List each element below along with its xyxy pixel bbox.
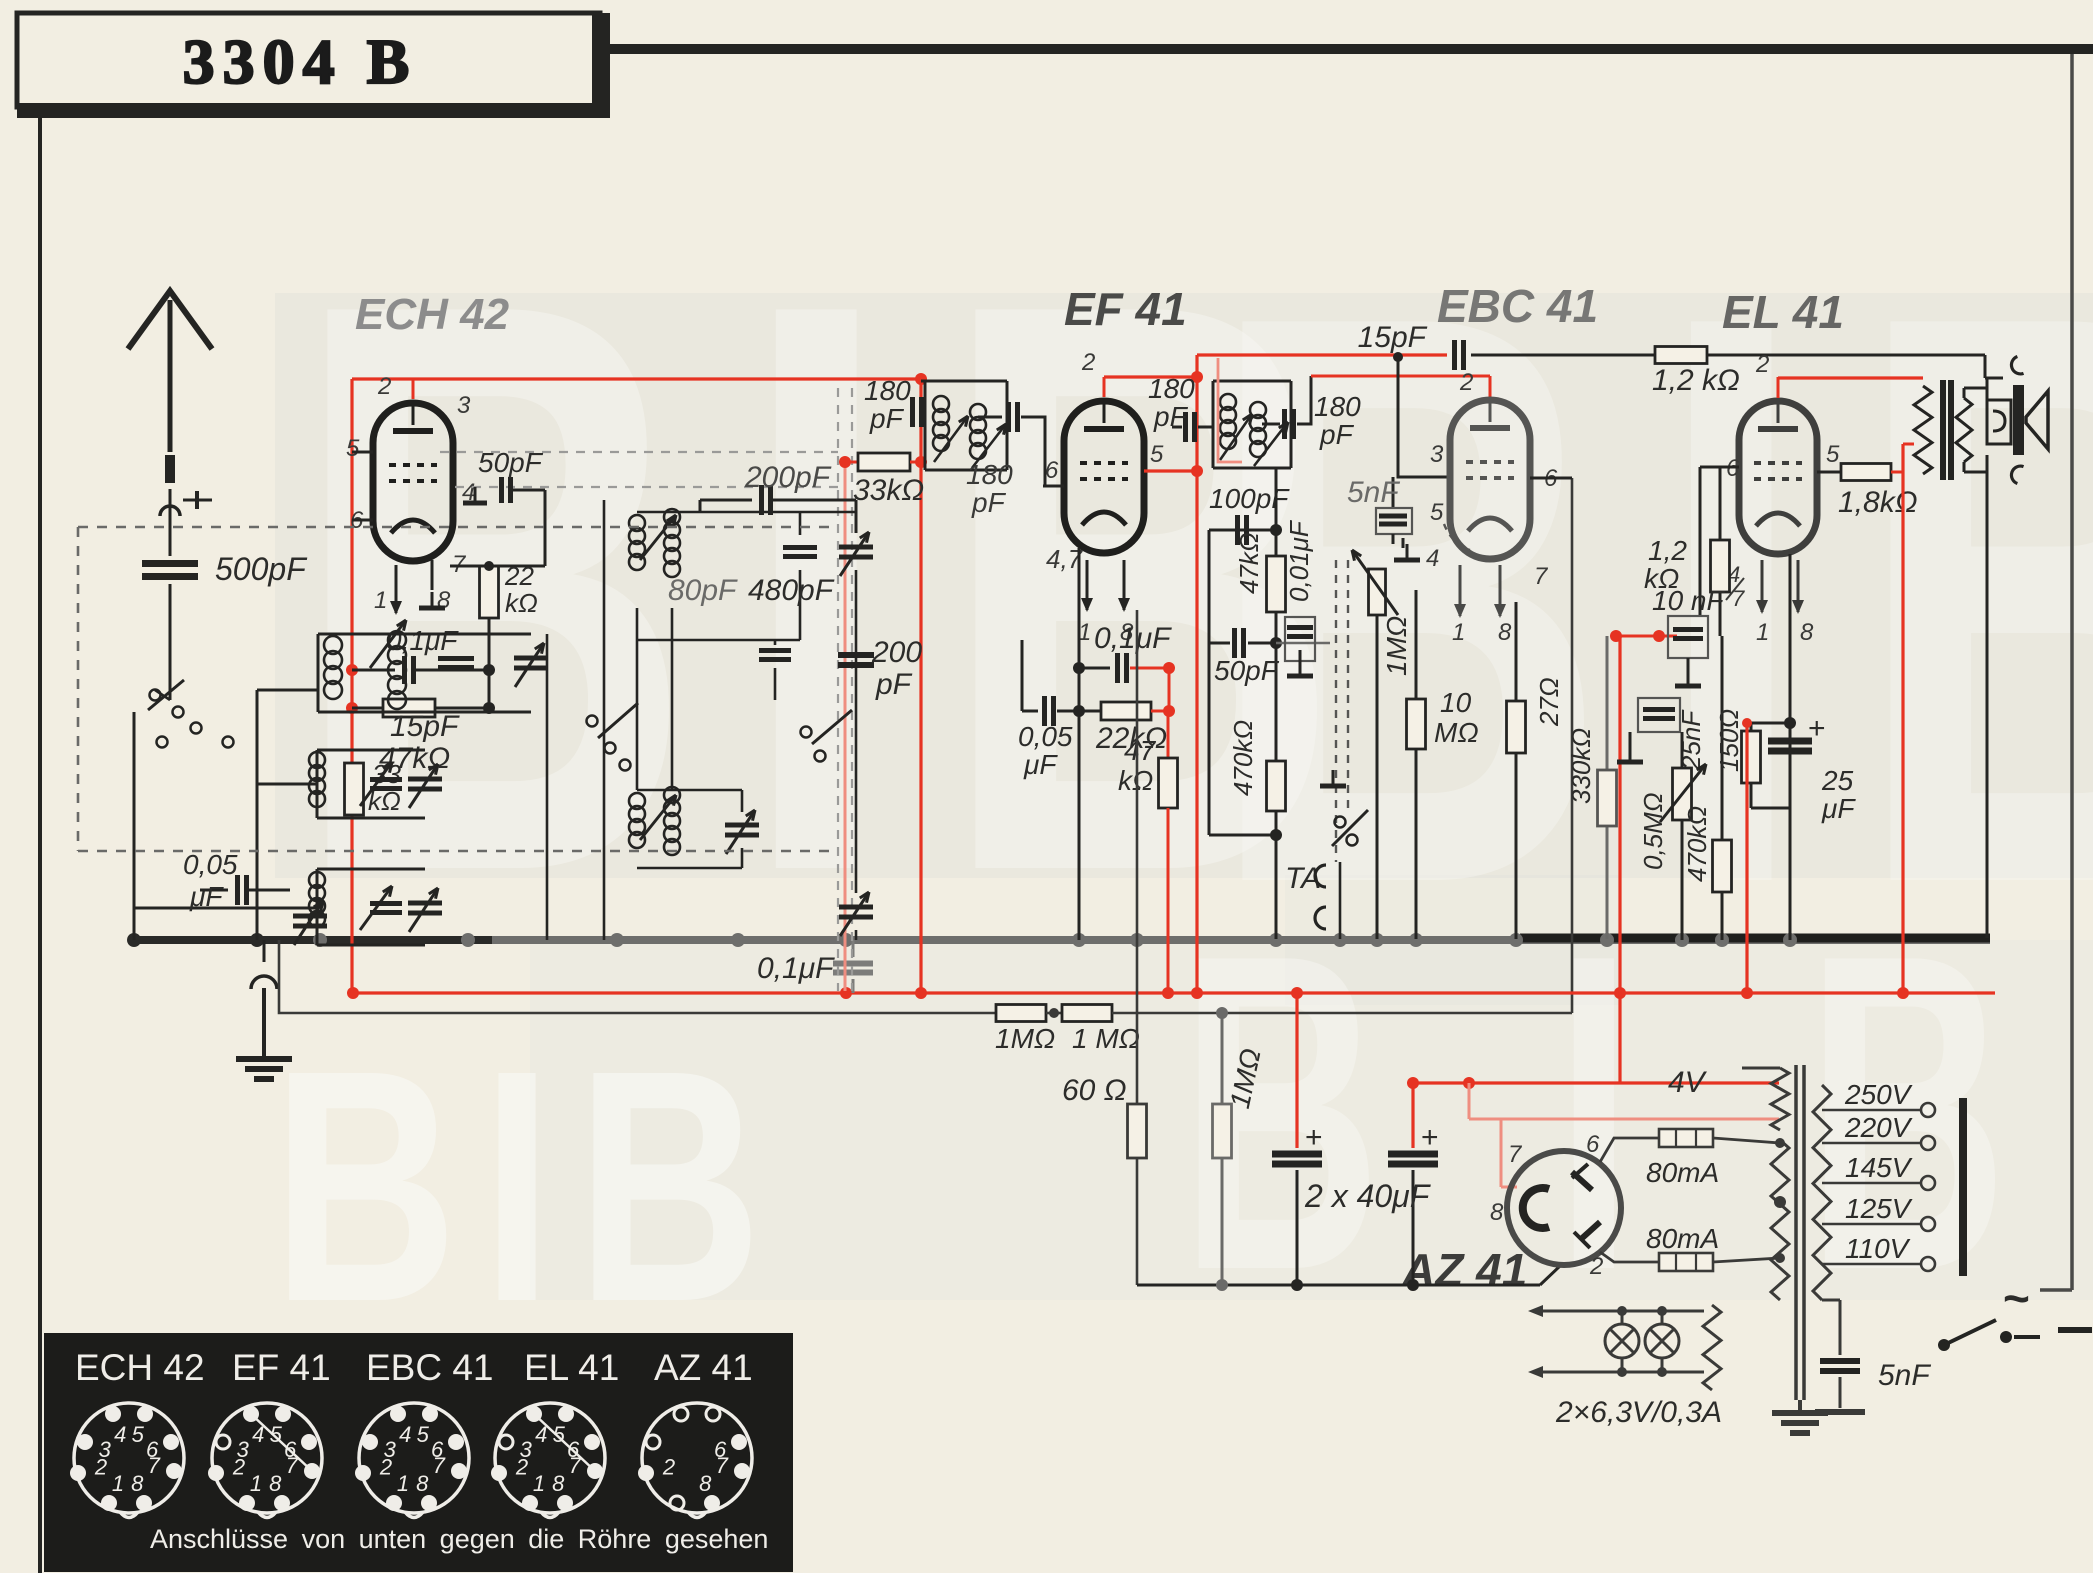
- svg-text:5: 5: [132, 1422, 145, 1447]
- svg-text:3: 3: [237, 1437, 250, 1462]
- svg-text:8: 8: [1490, 1199, 1504, 1226]
- svg-text:80mA: 80mA: [1646, 1157, 1719, 1188]
- svg-text:EF 41: EF 41: [232, 1347, 331, 1388]
- svg-text:1MΩ: 1MΩ: [1381, 616, 1412, 676]
- svg-text:4: 4: [114, 1422, 126, 1447]
- svg-text:3: 3: [457, 392, 471, 419]
- svg-text:22: 22: [504, 561, 534, 591]
- svg-text:1: 1: [533, 1471, 545, 1496]
- svg-text:50pF: 50pF: [1214, 655, 1280, 686]
- svg-text:180: 180: [1314, 391, 1361, 422]
- svg-text:0,01μF: 0,01μF: [1284, 519, 1314, 602]
- svg-text:2×6,3V/0,3A: 2×6,3V/0,3A: [1555, 1396, 1722, 1429]
- svg-text:7: 7: [433, 1453, 446, 1478]
- svg-text:1: 1: [374, 587, 387, 614]
- svg-text:6: 6: [1045, 457, 1059, 484]
- svg-text:5nF: 5nF: [1878, 1359, 1931, 1392]
- svg-text:180: 180: [864, 375, 911, 406]
- svg-text:0,05: 0,05: [1018, 721, 1073, 752]
- svg-text:Anschlüsse von unten gegen die: Anschlüsse von unten gegen die Röhre ges…: [150, 1524, 768, 1554]
- svg-text:μF: μF: [189, 881, 224, 912]
- svg-text:4: 4: [1426, 545, 1439, 572]
- svg-text:7: 7: [1534, 563, 1549, 590]
- svg-text:ECH 42: ECH 42: [355, 290, 510, 339]
- svg-text:EBC 41: EBC 41: [1437, 280, 1598, 332]
- svg-text:+: +: [1421, 1121, 1439, 1154]
- svg-text:180: 180: [966, 459, 1013, 490]
- svg-text:kΩ: kΩ: [1118, 765, 1153, 796]
- svg-text:MΩ: MΩ: [1434, 717, 1479, 748]
- svg-text:33kΩ: 33kΩ: [853, 474, 924, 507]
- svg-text:2: 2: [662, 1454, 675, 1479]
- svg-text:10: 10: [1440, 687, 1472, 718]
- svg-text:60 Ω: 60 Ω: [1062, 1074, 1127, 1107]
- svg-text:7: 7: [716, 1453, 729, 1478]
- svg-text:15pF: 15pF: [390, 710, 460, 743]
- svg-text:200: 200: [871, 636, 922, 669]
- svg-text:2: 2: [1589, 1253, 1603, 1280]
- svg-text:4V: 4V: [1668, 1066, 1708, 1099]
- svg-text:180: 180: [1148, 373, 1195, 404]
- svg-text:1,2: 1,2: [1648, 535, 1687, 566]
- svg-text:4: 4: [399, 1422, 411, 1447]
- svg-text:110V: 110V: [1845, 1233, 1911, 1264]
- svg-text:5: 5: [1430, 499, 1444, 526]
- svg-text:7: 7: [148, 1453, 161, 1478]
- svg-text:150Ω: 150Ω: [1714, 709, 1744, 772]
- svg-text:8: 8: [269, 1471, 282, 1496]
- svg-text:1 MΩ: 1 MΩ: [1072, 1023, 1140, 1054]
- svg-text:5: 5: [346, 435, 360, 462]
- svg-text:3304 B: 3304 B: [183, 26, 418, 97]
- svg-text:1: 1: [1452, 619, 1465, 646]
- svg-text:AZ 41: AZ 41: [1401, 1244, 1527, 1296]
- svg-text:μF: μF: [1821, 793, 1856, 824]
- svg-text:EL 41: EL 41: [1722, 286, 1844, 338]
- svg-text:1: 1: [250, 1471, 262, 1496]
- svg-text:0,5MΩ: 0,5MΩ: [1638, 792, 1668, 870]
- svg-text:8: 8: [1498, 619, 1512, 646]
- svg-text:8: 8: [1800, 619, 1814, 646]
- svg-text:2 x 40μF: 2 x 40μF: [1304, 1178, 1432, 1214]
- svg-text:50pF: 50pF: [478, 447, 544, 478]
- svg-text:1: 1: [1756, 619, 1769, 646]
- svg-text:330kΩ: 330kΩ: [1566, 728, 1596, 804]
- svg-text:250V: 250V: [1844, 1079, 1913, 1110]
- svg-text:EBC 41: EBC 41: [366, 1347, 494, 1388]
- svg-text:80pF: 80pF: [668, 574, 738, 607]
- svg-text:1: 1: [112, 1471, 124, 1496]
- svg-text:125V: 125V: [1845, 1193, 1913, 1224]
- svg-text:5: 5: [1150, 441, 1164, 468]
- svg-text:8: 8: [699, 1471, 712, 1496]
- svg-text:3: 3: [99, 1437, 112, 1462]
- svg-text:ECH 42: ECH 42: [75, 1347, 205, 1388]
- svg-text:2: 2: [1459, 369, 1473, 396]
- svg-text:1MΩ: 1MΩ: [995, 1023, 1055, 1054]
- svg-text:EF 41: EF 41: [1064, 283, 1187, 335]
- svg-text:80mA: 80mA: [1646, 1223, 1719, 1254]
- svg-text:15pF: 15pF: [1358, 321, 1428, 354]
- svg-text:~: ~: [2003, 1272, 2030, 1324]
- svg-text:145V: 145V: [1845, 1152, 1913, 1183]
- svg-text:1: 1: [397, 1471, 409, 1496]
- svg-text:5: 5: [417, 1422, 430, 1447]
- svg-text:BIB: BIB: [272, 1001, 785, 1370]
- svg-text:pF: pF: [869, 403, 905, 434]
- svg-text:220V: 220V: [1844, 1112, 1913, 1143]
- svg-text:+: +: [1305, 1121, 1323, 1154]
- svg-text:100pF: 100pF: [1209, 483, 1290, 514]
- svg-text:47: 47: [1124, 735, 1157, 766]
- svg-text:5: 5: [1826, 441, 1840, 468]
- svg-text:pF: pF: [1153, 401, 1189, 432]
- svg-text:10 nF: 10 nF: [1652, 585, 1725, 616]
- svg-text:470kΩ: 470kΩ: [1682, 806, 1712, 882]
- svg-text:3: 3: [520, 1437, 533, 1462]
- svg-text:470kΩ: 470kΩ: [1228, 720, 1258, 796]
- svg-text:5nF: 5nF: [1347, 476, 1400, 509]
- svg-text:pF: pF: [875, 668, 913, 701]
- svg-text:2: 2: [377, 373, 391, 400]
- svg-text:6: 6: [1586, 1131, 1600, 1158]
- svg-text:8: 8: [416, 1471, 429, 1496]
- svg-text:7: 7: [1508, 1141, 1523, 1168]
- svg-text:EL 41: EL 41: [524, 1347, 619, 1388]
- svg-text:pF: pF: [1319, 419, 1355, 450]
- svg-text:μF: μF: [1023, 749, 1058, 780]
- svg-text:25: 25: [1821, 765, 1854, 796]
- svg-text:0,1μF: 0,1μF: [1094, 622, 1172, 655]
- svg-text:0,1μF: 0,1μF: [757, 952, 835, 985]
- svg-text:27Ω: 27Ω: [1534, 677, 1564, 727]
- svg-text:kΩ: kΩ: [505, 588, 538, 618]
- svg-text:200pF: 200pF: [744, 461, 832, 494]
- svg-text:3: 3: [1430, 441, 1444, 468]
- svg-text:8: 8: [131, 1471, 144, 1496]
- svg-text:500pF: 500pF: [215, 551, 308, 587]
- svg-text:2: 2: [1755, 351, 1769, 378]
- svg-text:2: 2: [1081, 349, 1095, 376]
- svg-text:AZ 41: AZ 41: [654, 1347, 753, 1388]
- svg-text:+: +: [1808, 712, 1826, 745]
- svg-text:3: 3: [384, 1437, 397, 1462]
- svg-text:1,2 kΩ: 1,2 kΩ: [1652, 364, 1740, 397]
- svg-text:0,05: 0,05: [183, 849, 238, 880]
- svg-text:8: 8: [552, 1471, 565, 1496]
- svg-text:1,8kΩ: 1,8kΩ: [1838, 486, 1918, 519]
- svg-text:480pF: 480pF: [748, 574, 835, 607]
- svg-text:47kΩ: 47kΩ: [1234, 532, 1264, 594]
- svg-text:pF: pF: [971, 487, 1007, 518]
